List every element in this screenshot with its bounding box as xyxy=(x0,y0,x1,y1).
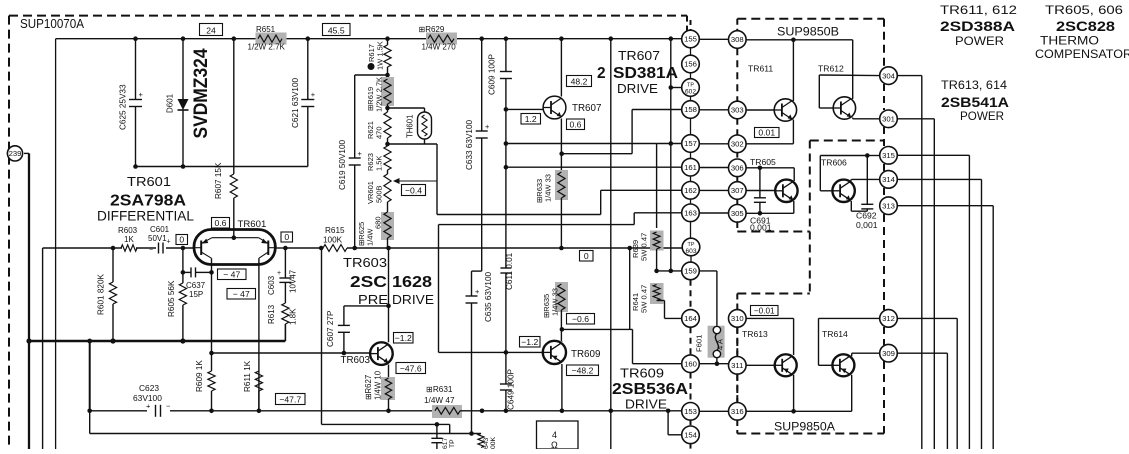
capacitor C633 63V100 xyxy=(465,39,490,271)
node rail-R611 xyxy=(257,409,262,414)
wire 158-303 xyxy=(699,109,728,111)
svg-text:2SD388A: 2SD388A xyxy=(940,19,1015,34)
svg-text:POWER: POWER xyxy=(960,109,1004,123)
svg-text:−1.2: −1.2 xyxy=(521,337,538,347)
pin 303 xyxy=(729,101,747,119)
wire R641 bottom to 164 xyxy=(657,301,682,319)
dual transistor TR601 body xyxy=(194,230,275,265)
voltage box 0 TP603 xyxy=(580,251,594,262)
wire TR601 emitter to TR603 base xyxy=(212,351,371,356)
capacitor C609 100P xyxy=(488,39,512,110)
svg-text:−47.7: −47.7 xyxy=(279,394,301,404)
svg-text:C601: C601 xyxy=(150,225,170,234)
label TR603 block xyxy=(343,256,434,307)
link 163-TP603 xyxy=(690,222,692,239)
svg-text:THERMO: THERMO xyxy=(1040,34,1099,48)
pin 161 xyxy=(682,158,700,176)
wire TR609 emitter xyxy=(560,364,565,413)
wire TR612 base jog xyxy=(819,75,879,108)
pin 159 xyxy=(682,262,700,280)
transistor TR614 xyxy=(832,354,854,376)
wire 306 to TR605 collector xyxy=(746,166,794,182)
svg-text:0.6: 0.6 xyxy=(215,218,227,228)
svg-text:TR614: TR614 xyxy=(822,329,848,339)
wire VR wiper to 162 drop xyxy=(437,144,682,215)
pin 162 xyxy=(682,182,700,200)
dashed link 159-164 xyxy=(690,280,692,310)
svg-text:C637: C637 xyxy=(186,281,206,290)
wire TR609 collector stub xyxy=(561,340,563,343)
link 162-163 xyxy=(690,199,692,204)
link 155-156 xyxy=(690,48,692,55)
svg-text:R611 1K: R611 1K xyxy=(243,360,252,392)
svg-text:D601: D601 xyxy=(166,93,175,113)
svg-text:+: + xyxy=(311,90,316,99)
wire 309 route xyxy=(897,353,947,449)
wire TR601 left emitter down xyxy=(211,258,213,353)
svg-text:305: 305 xyxy=(731,209,744,218)
svg-text:C619 50V100: C619 50V100 xyxy=(338,139,347,190)
wire TR612 emitter to 301 xyxy=(853,118,880,119)
node rail-TR607 collector xyxy=(559,36,564,41)
resistor R609 1K xyxy=(195,351,215,411)
svg-text:−0.4: −0.4 xyxy=(405,185,422,195)
svg-text:0,001: 0,001 xyxy=(856,220,878,230)
load box 4 ohm xyxy=(537,421,579,450)
wire TR614 emitter xyxy=(851,375,853,412)
svg-text:⊞R631: ⊞R631 xyxy=(426,385,453,394)
wire 313 route xyxy=(897,206,993,449)
svg-text:C625 25V33: C625 25V33 xyxy=(119,84,128,130)
svg-text:304: 304 xyxy=(882,71,896,80)
wire TR606 base network xyxy=(820,153,879,191)
capacitor C623 63V100 xyxy=(133,383,171,417)
capacitor C617 xyxy=(431,424,456,449)
svg-text:R607 15K: R607 15K xyxy=(214,162,223,199)
svg-text:603: 603 xyxy=(685,248,696,255)
label TR609 xyxy=(571,349,600,360)
resistor R639 5W 0.47 xyxy=(631,231,664,271)
wire F601 bottom row 160-311 xyxy=(699,358,728,366)
voltage box 0.6 TR607 xyxy=(567,119,585,130)
svg-text:TP: TP xyxy=(449,439,456,448)
wire 310 to TR613 collector xyxy=(746,318,794,355)
voltage box -1.2 TR609 xyxy=(520,337,541,348)
voltage box -47.7 xyxy=(276,394,306,405)
svg-text:1/4W 33: 1/4W 33 xyxy=(551,288,560,316)
svg-text:164: 164 xyxy=(684,314,698,323)
resistor R641 5W 0.47 xyxy=(631,283,664,313)
svg-text:TR612: TR612 xyxy=(818,64,844,74)
svg-text:R603: R603 xyxy=(118,226,138,235)
svg-text:−: − xyxy=(149,247,153,254)
voltage box -47 lower xyxy=(227,289,256,300)
SUP9850A label xyxy=(774,421,835,434)
zener diode D601 SVDMZ324 xyxy=(166,39,189,167)
wire left edge drop from rail xyxy=(55,39,57,449)
wire TR601 right emitter down xyxy=(258,258,260,411)
svg-text:−: − xyxy=(166,402,171,411)
dashed link 306-307 xyxy=(736,177,738,182)
capacitor C601 50V1 xyxy=(148,225,171,254)
resistor R613 1.8K label xyxy=(267,304,298,325)
label TR612 xyxy=(818,64,844,74)
wire output column xyxy=(609,39,614,449)
svg-text:+: + xyxy=(475,287,480,296)
svg-text:316: 316 xyxy=(731,407,744,416)
node rail-output column xyxy=(609,36,614,41)
node rail-C609 xyxy=(504,36,509,41)
svg-text:301: 301 xyxy=(882,115,895,124)
dashed link 311-316 xyxy=(736,374,738,402)
capacitor C692 0.001 xyxy=(856,156,878,231)
node base-R605 xyxy=(181,246,186,251)
dashed link 310-311 xyxy=(736,327,738,356)
svg-text:C633 63V100: C633 63V100 xyxy=(465,119,474,170)
svg-text:TP: TP xyxy=(687,82,694,88)
capacitor C621 63V100 xyxy=(291,39,316,167)
wire TR607 emitter chain xyxy=(559,119,564,173)
svg-text:1/4W 47: 1/4W 47 xyxy=(424,396,455,405)
wire 239 input drop xyxy=(24,153,29,341)
svg-text:314: 314 xyxy=(882,175,896,184)
svg-text:0.6: 0.6 xyxy=(570,119,582,129)
svg-text:643: 643 xyxy=(483,437,490,449)
svg-text:C611 0.01: C611 0.01 xyxy=(505,252,514,290)
svg-text:C623: C623 xyxy=(139,383,159,393)
svg-text:500B: 500B xyxy=(375,185,384,203)
pin 304 xyxy=(880,67,898,85)
svg-text:0: 0 xyxy=(284,232,289,242)
wire TP602 stub xyxy=(669,85,682,90)
wire 304 route xyxy=(897,76,922,449)
svg-text:1.5K: 1.5K xyxy=(375,156,384,171)
resistor R633 1/4W 33 xyxy=(535,170,568,248)
wire 314 route xyxy=(897,179,981,449)
voltage box -0.4 xyxy=(402,185,426,196)
node base-R601 xyxy=(111,246,116,251)
svg-text:Ω: Ω xyxy=(551,440,558,449)
wire TR601 base right with C603 R613 xyxy=(275,246,289,341)
svg-text:TR605: TR605 xyxy=(750,157,776,167)
dashed link 153-154 xyxy=(690,420,692,426)
resistor R631 1/4W 47 xyxy=(424,385,462,418)
pin 160 xyxy=(682,355,700,373)
svg-text:+: + xyxy=(146,402,151,411)
wire emitter to 158 xyxy=(562,110,682,154)
svg-text:4 A: 4 A xyxy=(716,338,725,350)
svg-text:5W 0.47: 5W 0.47 xyxy=(640,285,649,313)
svg-text:−0.6: −0.6 xyxy=(572,314,589,324)
pin 309 xyxy=(880,344,898,362)
pin 313 xyxy=(880,197,898,215)
label TR607 xyxy=(572,103,601,114)
svg-text:315: 315 xyxy=(882,151,895,160)
label TR614 xyxy=(822,329,848,339)
resistor R651 xyxy=(248,25,287,52)
svg-text:1628: 1628 xyxy=(392,274,433,291)
svg-text:C692: C692 xyxy=(856,211,877,221)
svg-text:C603: C603 xyxy=(267,275,276,295)
svg-text:311: 311 xyxy=(731,361,743,370)
svg-text:155: 155 xyxy=(684,35,697,44)
pin 163 xyxy=(682,204,700,222)
svg-text:1.2: 1.2 xyxy=(525,114,537,124)
svg-text:24: 24 xyxy=(206,25,216,35)
label TR606 xyxy=(821,158,847,168)
svg-text:2SC: 2SC xyxy=(350,274,387,291)
svg-text:C649 100P: C649 100P xyxy=(507,368,516,410)
label TR611 xyxy=(748,64,773,74)
dashed link 308-303 xyxy=(736,48,738,101)
resistor R625 1/4W 680 xyxy=(357,212,394,248)
pin 316 xyxy=(729,403,747,421)
wire 316 emitter row xyxy=(746,410,852,412)
svg-text:R651: R651 xyxy=(256,25,276,34)
svg-text:DIFFERENTIAL: DIFFERENTIAL xyxy=(97,208,194,224)
svg-text:5W 0.47: 5W 0.47 xyxy=(640,233,649,261)
svg-text:154: 154 xyxy=(684,431,698,440)
svg-text:POWER: POWER xyxy=(955,34,1004,48)
capacitor C635 63V100 xyxy=(466,271,494,433)
transistor TR612 xyxy=(833,97,855,119)
capacitor C603 10V47 xyxy=(267,269,298,295)
pin 307 xyxy=(729,182,747,200)
wire 154 link xyxy=(668,411,682,435)
svg-text:−1.2: −1.2 xyxy=(395,333,412,343)
link 161-162 xyxy=(690,176,692,182)
resistor R627 1/4W 10 xyxy=(364,365,395,414)
resistor R619 1/2W 2.7K xyxy=(366,77,394,112)
pin 301 xyxy=(880,110,898,128)
transistor TR611 xyxy=(774,99,796,121)
svg-text:1/4W 270: 1/4W 270 xyxy=(422,43,457,52)
wire TR611 base xyxy=(746,109,774,111)
wire bus drop x89 xyxy=(87,339,92,434)
svg-text:TR601: TR601 xyxy=(127,174,171,189)
label SVDMZ324 xyxy=(191,48,212,138)
svg-text:10V47: 10V47 xyxy=(289,269,298,293)
svg-text:1/2W 2.7K: 1/2W 2.7K xyxy=(248,43,286,52)
pin 164 xyxy=(682,310,700,328)
wire 161-306 xyxy=(699,167,728,169)
node R639-R641 xyxy=(654,269,659,274)
node rail-D601 xyxy=(181,36,186,41)
svg-text:COMPENSATOR: COMPENSATOR xyxy=(1035,47,1129,61)
svg-text:R609 1K: R609 1K xyxy=(195,360,204,392)
svg-text:2SC828: 2SC828 xyxy=(1056,19,1115,34)
wire C637 branch xyxy=(181,248,214,275)
transistor TR605 xyxy=(775,180,797,202)
pin 153 xyxy=(682,403,700,421)
wire TR607 base xyxy=(506,108,543,110)
svg-text:160: 160 xyxy=(684,359,697,368)
label TR605 xyxy=(750,157,776,167)
voltage box 0 left of TR601 xyxy=(176,234,188,244)
capacitor C625 25V33 xyxy=(119,39,144,167)
svg-text:⊞R627: ⊞R627 xyxy=(364,375,373,400)
SUP10070A board dashed border xyxy=(9,16,687,449)
wire TR613 emitter xyxy=(791,375,796,414)
svg-text:302: 302 xyxy=(731,140,744,149)
wire +45.5V top rail xyxy=(56,39,853,40)
capacitor C619 50V100 xyxy=(338,75,388,248)
svg-text:00K: 00K xyxy=(490,436,497,449)
wire R639 column top xyxy=(656,144,658,229)
dashed link 160-153 xyxy=(690,373,692,403)
voltage box 24 xyxy=(200,24,223,36)
svg-text:1K: 1K xyxy=(124,235,134,244)
wire 153 row xyxy=(682,410,729,413)
dashed link border to pin 155 xyxy=(690,20,692,30)
node R621-R623 TH601 bottom xyxy=(385,142,390,147)
label TR613 xyxy=(742,329,768,339)
dashed link 164-160 xyxy=(690,327,692,355)
svg-text:SUP9850A: SUP9850A xyxy=(774,421,835,434)
wire 315 route xyxy=(897,155,969,449)
wire TR612 collector xyxy=(852,40,854,99)
dashed link 302-306 xyxy=(736,153,738,159)
label TR601 type xyxy=(97,174,194,224)
svg-text:TR606: TR606 xyxy=(821,158,847,168)
svg-text:TR611, 612: TR611, 612 xyxy=(940,3,1017,17)
wire 161 row xyxy=(506,166,682,168)
node rail-157 column xyxy=(669,36,674,41)
svg-text:+: + xyxy=(139,90,144,99)
wire 301 route xyxy=(897,119,934,449)
link 602-158 xyxy=(690,96,692,100)
svg-text:TR609: TR609 xyxy=(620,367,664,381)
resistor R605 56K xyxy=(167,272,187,341)
pin 302 xyxy=(729,135,747,153)
svg-text:15P: 15P xyxy=(189,290,203,299)
pin 157 xyxy=(682,135,700,153)
node R617-R619 xyxy=(385,73,390,78)
voltage box -0.01 xyxy=(751,306,779,316)
svg-text:TR611: TR611 xyxy=(748,64,773,74)
wire 239 drop to bottom xyxy=(28,341,30,449)
SUP10070A label xyxy=(20,17,85,31)
svg-text:48.2: 48.2 xyxy=(571,76,588,86)
svg-text:0: 0 xyxy=(179,234,184,244)
capacitor C691 0.001 xyxy=(750,168,772,233)
svg-text:R605 56K: R605 56K xyxy=(167,280,176,317)
wire TR601 base left xyxy=(43,247,194,249)
svg-text:308: 308 xyxy=(731,35,744,44)
voltage box 45.5 xyxy=(323,24,351,36)
voltage box 48.2 xyxy=(567,76,592,87)
potentiometer VR601 500B xyxy=(366,174,437,212)
wire lower return y424 xyxy=(322,248,450,434)
wire 157-302 xyxy=(699,143,728,145)
transistor TR609 xyxy=(543,341,566,364)
wire C609 column mid xyxy=(504,107,509,268)
svg-text:C609 100P: C609 100P xyxy=(488,53,497,95)
wire collector row to 160 xyxy=(562,329,682,363)
pin 306 xyxy=(729,159,747,177)
svg-text:SVDMZ324: SVDMZ324 xyxy=(191,48,212,138)
svg-text:45.5: 45.5 xyxy=(328,25,345,35)
resistor R615 100K xyxy=(323,226,347,251)
wire 311 TR613 base xyxy=(746,364,775,366)
pin 158 xyxy=(682,101,700,119)
svg-text:DRIVE: DRIVE xyxy=(617,82,658,96)
svg-text:2SB536A: 2SB536A xyxy=(612,381,688,398)
voltage box 0 right of TR601 xyxy=(281,232,293,242)
svg-text:1/4W 10: 1/4W 10 xyxy=(374,370,383,400)
link TP603-159 xyxy=(690,256,692,262)
svg-text:159: 159 xyxy=(684,267,697,276)
wire bottom rail middle xyxy=(460,409,682,414)
svg-text:TR603: TR603 xyxy=(343,256,387,270)
svg-text:DRIVE: DRIVE xyxy=(625,398,667,412)
pin 315 xyxy=(880,147,898,165)
svg-text:PRE: PRE xyxy=(358,293,388,307)
svg-text:− 47: − 47 xyxy=(223,269,240,279)
voltage box -47.6 xyxy=(396,363,426,374)
link 158-157 xyxy=(690,118,692,134)
svg-text:158: 158 xyxy=(684,105,697,114)
svg-text:2: 2 xyxy=(597,65,606,82)
svg-text:+: + xyxy=(358,149,363,158)
node rail-C633 xyxy=(479,36,484,41)
pin 239 xyxy=(7,146,22,161)
wire TR614 collector to 309 xyxy=(852,353,880,356)
voltage box 1.2 TR607 xyxy=(521,114,541,125)
wire 162-307 xyxy=(699,189,728,191)
svg-text:−48.2: −48.2 xyxy=(572,365,594,375)
fuse F601 4A xyxy=(695,326,725,358)
wire TR614 base jog xyxy=(819,318,880,365)
pin 310 xyxy=(729,310,747,328)
pin 308 xyxy=(729,31,747,49)
wire lower return y434 xyxy=(90,431,481,436)
svg-text:SD381A: SD381A xyxy=(613,65,678,82)
pin 154 xyxy=(682,426,700,444)
wire 159 to F601 xyxy=(699,271,717,326)
wire R615 emitter feed xyxy=(285,246,391,251)
wire 157 row xyxy=(506,141,682,146)
svg-text:SUP10070A: SUP10070A xyxy=(20,17,85,31)
wire TR611 emitter to 302 xyxy=(746,120,793,144)
svg-text:156: 156 xyxy=(684,60,697,69)
svg-text:−47.6: −47.6 xyxy=(400,363,422,373)
resistor R621 470 xyxy=(366,112,391,146)
svg-text:239: 239 xyxy=(9,149,22,158)
voltage box -0.6 xyxy=(567,314,595,325)
svg-text:R601 820K: R601 820K xyxy=(97,273,106,315)
test point TP602 xyxy=(682,79,700,97)
svg-text:TR607: TR607 xyxy=(572,103,601,114)
svg-text:SUP9850B: SUP9850B xyxy=(777,26,839,39)
resistor R611 1K xyxy=(243,360,263,411)
svg-text:162: 162 xyxy=(684,186,697,195)
transistor TR606 xyxy=(832,180,854,202)
svg-text:DRIVE: DRIVE xyxy=(392,293,434,307)
svg-text:+: + xyxy=(167,239,171,246)
resistor R629 xyxy=(419,25,458,52)
resistor R607 15K xyxy=(214,39,237,238)
wire 305 TR605 emitter xyxy=(746,201,794,216)
dashed link below 154 xyxy=(690,444,692,449)
svg-text:617: 617 xyxy=(442,437,449,449)
label TR605 606 2SC828 THERMO COMPENSATOR xyxy=(1035,3,1129,61)
wire TR606 collector to 314 xyxy=(851,179,880,181)
voltage box -1.2 TR603 xyxy=(394,333,414,344)
svg-text:157: 157 xyxy=(684,139,697,148)
wire TR603 collector column xyxy=(386,248,391,342)
wire 157 column xyxy=(670,39,672,271)
